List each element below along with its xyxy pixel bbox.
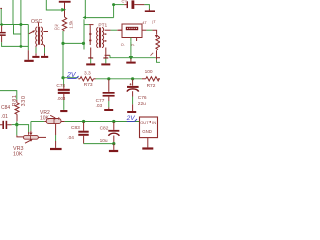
wire R2 to OSC node [62,31,64,78]
junction dot G [112,3,115,6]
svg-text:GND: GND [142,129,152,134]
junction dot K [15,123,18,126]
svg-text:OSC: OSC [31,19,42,25]
arrow at corner [83,16,86,20]
capacitor C77 bottom lead [108,97,110,101]
svg-text:C76: C76 [138,95,147,101]
svg-text:C78: C78 [56,83,65,89]
wire gnd lead [27,50,29,60]
svg-text:.03: .03 [96,103,103,109]
ground G13 bar [142,147,153,149]
OSC variable arrow [29,31,34,34]
tick near pot2 [58,117,60,120]
capacitor C84 leads [0,124,12,126]
capacitor C82 bottom lead [113,136,115,144]
wire junction to VR3 wiper branch [17,125,29,132]
junction dot A [19,23,22,26]
resistor R81 top lead [16,100,18,103]
ground G6 bar [145,10,155,12]
potentiometer VR3 body [23,136,38,140]
PT1 left winding [97,28,99,48]
svg-text:1.5k: 1.5k [69,20,74,29]
capacitor C83 top lead [83,122,85,131]
wire down to VR3 left terminal [16,125,18,136]
regulator U3 inner bar [126,27,138,30]
VR2 adjust arrow [50,115,55,118]
PT1 secondary bottom pin [105,54,110,56]
resistor R81 body [15,103,19,115]
capacitor C78 top lead [63,78,65,86]
junction dot M [112,120,115,123]
ground G4 bar [86,63,95,65]
svg-text:2V: 2V [66,72,77,79]
PT1 secondary top pin to regulator [105,29,111,31]
OSC left gnd lead [36,45,37,48]
PT1 left pin lead [89,24,94,26]
wire net121 to regulator [65,121,140,123]
OSC top pin stub [38,22,40,26]
capacitor C-edge top-left plates [0,32,6,34]
wire R73 to R72 [94,78,96,80]
svg-text:R73: R73 [84,82,93,88]
wire net121 left corner to pot2 [30,122,32,131]
power lead to R2 [64,2,66,17]
ground G5 bar [101,63,110,65]
capacitor C78 bottom lead [63,94,65,100]
gnd lead [130,59,132,62]
svg-text:O.: O. [121,43,125,47]
PT1 left bottom gnd [90,48,92,59]
capacitor C76 bottom lead [132,91,134,96]
OSC transformer left winding [36,27,38,45]
wire vert to PT1 top [83,19,85,49]
capacitor C83 bottom lead [83,136,85,144]
svg-text:C82: C82 [100,126,109,132]
svg-text:10u: 10u [100,138,108,144]
capacitor C76 plates [127,86,139,88]
junction dot C [0,23,3,26]
junction dot node 2V [61,76,64,79]
resistor R73 body [80,77,93,81]
wire net143 [84,143,114,145]
capacitor C77 plates [103,92,115,94]
svg-text:.04: .04 [67,135,74,141]
wire net1 vertical left [12,0,14,25]
VR3 right lead [38,136,46,138]
ground G3 bar [41,56,48,58]
svg-text:.003: .003 [57,96,66,101]
wire top-left horizontal [0,24,28,26]
svg-text:R72: R72 [147,83,156,89]
wire net57 red tail [156,57,160,59]
svg-text:C84: C84 [1,105,10,111]
ground G7 bar [126,62,135,64]
wire jog segment [14,25,21,35]
resistor R72 lead [142,78,146,80]
svg-text:100: 100 [145,69,153,75]
wire corner bottom right exit [156,58,158,60]
regulator U4 box [140,117,158,138]
potentiometer VR2 body [46,119,61,124]
wire PT1 left top [84,24,89,26]
wire to gnd top right [144,5,149,9]
resistor R72 tail [158,78,160,80]
junction dot E [61,42,64,45]
ground G1 bar [24,60,33,62]
capacitor C77 top lead [108,79,110,92]
VR3 adjust arrow [25,140,31,143]
junction dot F [82,42,85,45]
PT1 core [100,28,101,48]
wire corner top-mid [85,0,113,18]
junction dot H [129,56,133,60]
capacitor C82 plates [108,130,119,132]
regulator U3 bottom pins [130,38,132,42]
junction dot L [82,120,85,123]
ground G12 bar [109,150,118,152]
wire net121 horizontal [31,121,44,123]
resistor R81 bottom lead [16,114,18,121]
capacitor C-topright leads [124,4,144,6]
VR2 right lead [61,121,65,123]
power bar VCC [59,1,71,3]
resistor R72 body [146,77,159,81]
svg-text:10K: 10K [13,151,23,157]
label tick on net57 [151,53,154,56]
ground G11 bar [50,148,62,150]
regulator U4 gnd pin [147,138,149,148]
resistor R2 body [62,17,66,31]
capacitor C82 top lead [113,122,115,130]
junction dot N [112,142,115,145]
ground G8 bar [60,110,67,112]
ground G9 bar [104,109,113,111]
regulator U3 right pin [142,29,146,31]
resistor right-edge body [156,36,160,49]
wire 2V node [63,77,78,79]
C82 gnd lead [113,144,115,150]
capacitor C-topright plates [127,1,128,8]
junction dot I [107,77,110,80]
resistor right-edge lead [156,50,158,57]
svg-text:C?: C? [122,0,128,4]
svg-text:|T: |T [152,20,156,24]
OSC right gnd lead [42,44,44,47]
resistor R73 left lead [78,78,80,80]
ground G10 bar [127,111,136,113]
svg-text:4T: 4T [142,21,147,25]
capacitor C-edge leads [1,25,3,42]
wire net90 horizontal [0,91,17,100]
svg-text:C83: C83 [71,125,80,131]
capacitor C83 plates [78,131,88,133]
svg-text:22u: 22u [138,101,146,107]
svg-text:IN: IN [152,120,156,125]
wire corner up right [113,5,115,18]
junction dot B [20,45,23,48]
wire from cap to gnd net [2,42,29,46]
wire U3 gnd down [130,41,132,57]
regulator U3 box [122,24,142,38]
wire branch down to ground [27,25,29,51]
junction dot J [131,77,134,80]
svg-text:OUT: OUT [140,120,149,125]
OSC transformer core [39,27,40,45]
wire left edge vertical [0,9,2,25]
wire to power junction [46,0,64,10]
pot VR2 left lead [44,121,46,123]
VR2 wiper to ground [55,124,57,135]
svg-text:10K: 10K [40,116,50,122]
OSC transformer right winding [41,27,43,45]
ground G2 bar [32,56,39,58]
svg-text:R81: R81 [12,94,18,106]
capacitor C76 top lead [132,79,134,85]
wire net57 horizontal [110,55,156,57]
svg-text:OC: OC [54,27,60,31]
svg-text:C77: C77 [96,98,105,104]
svg-text:.01: .01 [1,114,8,120]
capacitor C84 plates [2,121,4,129]
svg-text:3.3: 3.3 [84,70,91,76]
PT1 right winding [102,28,104,48]
PT1 right bottom gnd [105,48,107,59]
svg-text:330: 330 [21,95,27,106]
wire net2 vertical [20,0,22,46]
regulator U3 left pin [118,29,122,31]
PT1 left pin rail [89,25,91,45]
capacitor C78 plates [58,89,70,91]
OSC right lead [43,31,48,33]
wire node43 horizontal [63,42,84,44]
junction dot D [61,8,66,12]
